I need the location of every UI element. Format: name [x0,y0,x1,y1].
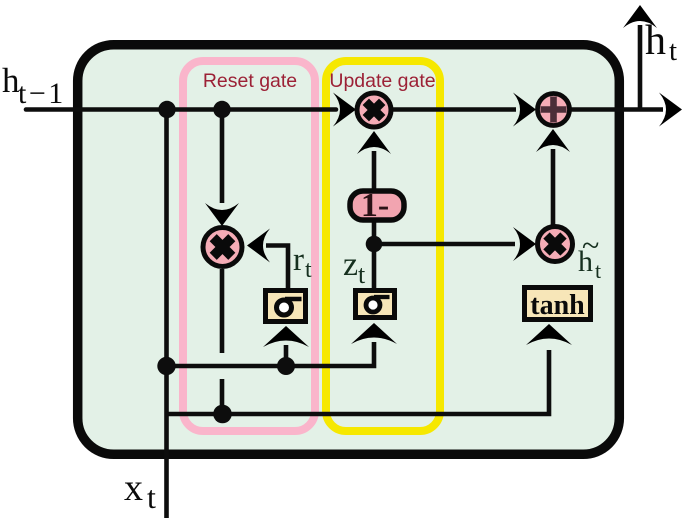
wire: 1- box to z junction [372,218,377,288]
wire: reset-mult output down (with gap at upper bus) [220,269,225,406]
wire: update-mult bottom arrow shaft from 1- box [372,151,377,190]
tanh box [525,288,591,322]
svg-text:t: t [305,257,312,283]
arrowhead into sigma2 (up, wide) [351,323,397,344]
arrowhead into reset-mult (down) [205,203,239,226]
junction dot z (below 1- box) [366,236,383,253]
arrowhead into update-mult from below (up) [357,131,391,154]
arrowhead into plus from below (up) [536,129,570,152]
arrowhead into plus from left (right) [513,93,536,127]
arrowhead into tanh (up, wide) [526,324,572,345]
wire: drop from h-line to reset-mult [220,110,225,204]
svg-text:t: t [669,35,677,67]
svg-text:1-: 1- [361,187,389,224]
update gate boundary (yellow rounded rectangle) [326,61,440,431]
svg-text:tanh: tanh [530,290,585,321]
svg-text:t: t [358,260,366,289]
label h-tilde_t [578,227,601,283]
svg-text:t: t [147,479,156,515]
svg-text:t: t [595,258,601,283]
junction dot on h-line at reset drop [213,101,230,118]
label "Update gate" [329,70,435,92]
wire: output branch up to h_t [638,25,643,110]
svg-text:h: h [645,18,666,64]
junction dot upper bus at x_t column [157,357,175,375]
svg-text:x: x [124,467,143,509]
svg-text:Update gate: Update gate [329,70,435,92]
wire: plus to right output [570,107,663,112]
arrowhead into reset-mult from right (left) [247,229,270,263]
arrowhead h_t up [623,5,657,28]
arrowhead into h-tilde-mult from left (right) [513,227,536,261]
reset gate boundary (pink rounded rectangle) [183,61,315,431]
label r_t [293,242,312,283]
arrowhead into update-mult (right) [333,93,356,127]
update multiply node (circle with X) [357,93,391,127]
label "Reset gate" [203,70,297,92]
label h_(t-1) input [2,61,66,110]
wire: x_t vertical input [164,110,169,519]
wire: h(t-1) main horizontal line [26,107,336,112]
junction dot lower bus at reset-mult column [213,405,232,424]
plus node (circle with +) [538,94,570,126]
arrowhead output right [659,93,682,127]
wire: lower x bus to tanh [167,350,550,414]
svg-text:r: r [293,242,304,278]
junction dot upper bus at sigma1 branch [277,357,295,375]
svg-text:z: z [343,246,358,283]
1- box [350,187,404,224]
wire: upper x bus to update sigma [167,342,374,366]
label h_t output [645,18,677,67]
wire: h-tilde-mult up to plus [551,149,556,226]
reset multiply node (circle with X) [203,228,242,267]
svg-text:t−1: t−1 [18,77,66,110]
wire: branch up from upper bus to sigma1 [284,345,289,366]
arrowhead into sigma1 (up, wide) [263,326,309,347]
label x_t input [124,467,156,515]
junction dot on h-line at x_t column [158,101,175,118]
sigma box 2 (update gate) [356,291,395,318]
svg-text:Reset gate: Reset gate [203,70,297,92]
h-tilde multiply node (circle with X) [538,227,573,262]
wire: z junction right to h-tilde-mult [374,242,515,247]
wire: sigma1 up then left into reset-mult [266,246,288,291]
sigma box 1 (reset gate) [266,291,306,322]
GRU cell body [78,45,620,455]
label z_t [343,246,366,289]
wire: update-mult to plus [392,107,516,112]
